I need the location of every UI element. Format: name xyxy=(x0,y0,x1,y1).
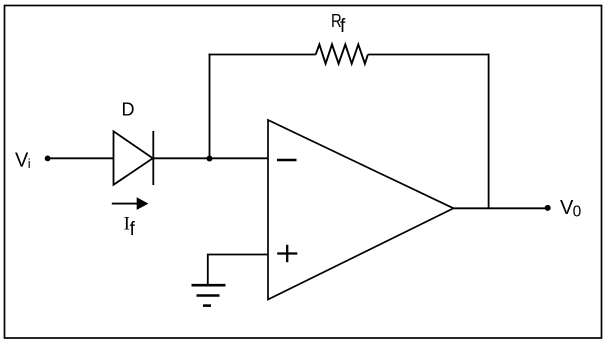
node junction dot xyxy=(207,156,213,162)
wire op-amp output xyxy=(454,207,548,209)
label Rf xyxy=(331,11,346,37)
wire feedback left segment xyxy=(209,54,316,56)
wire input to diode xyxy=(48,157,114,159)
wire diode to op-amp inverting input xyxy=(153,157,268,159)
op-amp U1 xyxy=(268,120,454,300)
svg-text:D: D xyxy=(122,100,135,120)
svg-text:i: i xyxy=(28,156,31,171)
svg-text:f: f xyxy=(340,16,346,37)
wire node up to feedback xyxy=(209,54,211,159)
op-amp minus sign xyxy=(277,159,297,161)
input terminal dot xyxy=(45,156,51,162)
wire feedback right segment xyxy=(368,54,490,56)
current arrow If xyxy=(112,197,149,210)
label V0 xyxy=(560,197,582,221)
label If xyxy=(124,214,136,241)
wire feedback down to output xyxy=(488,54,490,209)
op-amp plus sign xyxy=(277,245,297,262)
wire non-inverting input to ground xyxy=(208,255,268,286)
ground xyxy=(192,285,226,305)
svg-text:0: 0 xyxy=(573,204,582,221)
diode D xyxy=(114,131,154,185)
label Vi xyxy=(15,150,31,172)
output terminal dot xyxy=(545,205,551,211)
svg-text:f: f xyxy=(130,219,136,240)
resistor Rf xyxy=(316,44,368,63)
